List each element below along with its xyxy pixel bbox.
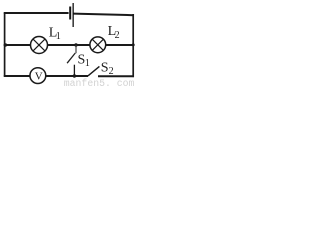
node S1 bottom junction: [73, 74, 76, 77]
wire middle-center segment: [48, 44, 90, 46]
svg-text:manfen5. com: manfen5. com: [64, 78, 135, 87]
switch S2 blade: [88, 66, 100, 76]
wire left vertical: [4, 12, 6, 76]
battery positive plate (long thin): [73, 3, 74, 27]
wire bottom-left segment: [4, 75, 30, 77]
svg-text:1: 1: [85, 58, 90, 69]
node right junction: [132, 43, 135, 46]
node left junction: [4, 43, 7, 46]
wire middle-right segment: [106, 44, 134, 46]
battery negative plate (short thick): [69, 7, 71, 20]
svg-text:2: 2: [115, 30, 120, 41]
wire middle-left segment: [4, 44, 31, 46]
svg-text:1: 1: [56, 31, 61, 42]
wire right vertical: [132, 14, 134, 77]
voltmeter V: [30, 68, 46, 84]
wire top-left segment: [4, 12, 69, 14]
lamp L1: [31, 37, 48, 54]
lamp L2: [90, 37, 106, 53]
node S1 top junction: [74, 43, 77, 46]
wire top-right segment: [73, 14, 134, 16]
switch S1: [67, 45, 76, 76]
svg-text:V: V: [35, 71, 43, 83]
svg-text:S: S: [101, 61, 109, 76]
wire bottom-right segment: [98, 75, 134, 77]
wire bottom-middle segment: [46, 75, 88, 77]
